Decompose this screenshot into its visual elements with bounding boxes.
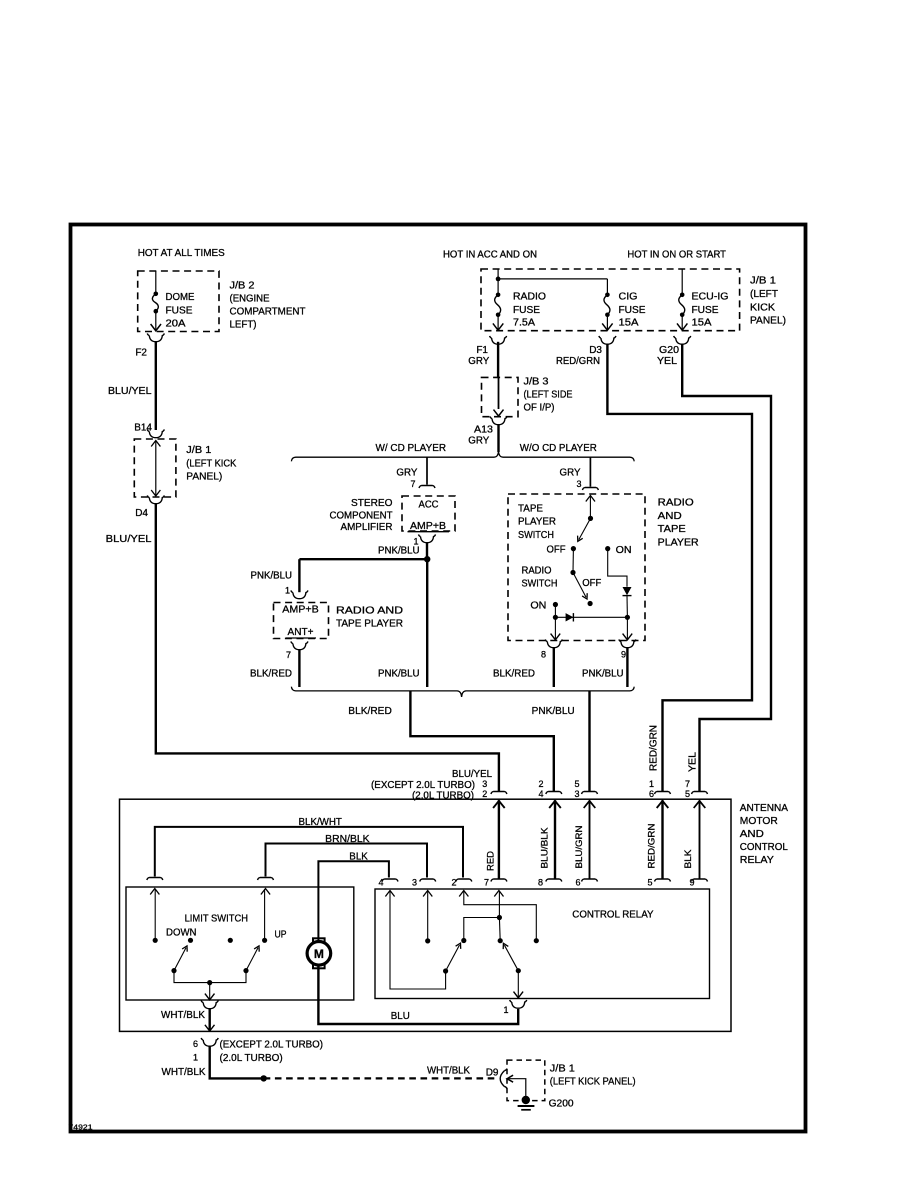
wire PNK/BLU node to radio xyxy=(299,558,427,560)
svg-text:FUSE: FUSE xyxy=(692,305,719,316)
label pin 1 and turbo xyxy=(193,1053,283,1065)
svg-text:J/B 1: J/B 1 xyxy=(550,1064,575,1075)
switch blade relay right xyxy=(503,943,521,973)
svg-text:BLK/RED: BLK/RED xyxy=(493,669,535,680)
svg-text:BLU/YEL: BLU/YEL xyxy=(108,386,152,397)
connector F2 xyxy=(147,333,164,341)
terminal RED/GRN in xyxy=(655,792,671,795)
svg-text:J/B 1: J/B 1 xyxy=(186,445,211,456)
label F1 GRY xyxy=(468,345,489,367)
wire BLU/GRN internal xyxy=(584,800,596,878)
terminal PNK/BLU in xyxy=(582,792,598,795)
label BLU/YEL turbo xyxy=(452,769,492,780)
label ON left xyxy=(530,600,546,611)
svg-text:PANEL): PANEL) xyxy=(750,316,786,327)
svg-text:RED/GRN: RED/GRN xyxy=(649,725,660,771)
svg-text:D4: D4 xyxy=(135,508,148,519)
wire WHT/BLK dashed ground run xyxy=(264,1077,495,1079)
terminal pin 3 tape player xyxy=(582,488,598,491)
svg-text:8: 8 xyxy=(538,878,543,888)
terminal BLK/RED in xyxy=(546,792,562,795)
svg-text:YEL: YEL xyxy=(688,752,699,772)
label GRY 3 xyxy=(560,468,582,490)
node relay contact 3 xyxy=(425,938,430,943)
connector F1 xyxy=(490,336,507,344)
svg-text:GRY: GRY xyxy=(468,356,489,367)
switch blade limit DOWN xyxy=(171,946,187,973)
label pins 3/2 BLU/YEL xyxy=(482,779,487,799)
node relay contact 2 xyxy=(534,938,539,943)
wire diode link xyxy=(555,616,627,618)
label RADIO AND TAPE PLAYER right xyxy=(658,498,699,549)
wire relay 7 to left contact xyxy=(464,918,500,941)
svg-text:(EXCEPT 2.0L TURBO): (EXCEPT 2.0L TURBO) xyxy=(220,1040,324,1051)
svg-text:WHT/BLK: WHT/BLK xyxy=(427,1066,470,1077)
connector tape pin 9 xyxy=(619,639,636,647)
svg-text:D3: D3 xyxy=(589,345,602,356)
fuse DOME FUSE 20A xyxy=(151,292,161,331)
svg-text:HOT IN ON OR START: HOT IN ON OR START xyxy=(627,250,726,261)
svg-text:CIG: CIG xyxy=(619,292,638,303)
wire GRY A13 to brace xyxy=(497,425,499,452)
svg-text:FUSE: FUSE xyxy=(166,305,193,316)
svg-text:A13: A13 xyxy=(474,425,493,436)
fuse RADIO FUSE 7.5A xyxy=(493,293,503,331)
svg-text:W/O CD PLAYER: W/O CD PLAYER xyxy=(520,443,597,454)
label AMP+B radio xyxy=(282,605,319,616)
wire limit feed left xyxy=(150,889,159,941)
node limit DOWN contact xyxy=(188,938,193,943)
label A13 GRY xyxy=(468,425,493,447)
label J/B 1 (LEFT KICK PANEL) right xyxy=(750,276,786,327)
wire RED/GRN D3 run xyxy=(607,345,752,792)
label BLK vertical xyxy=(683,849,694,869)
label DOWN xyxy=(166,928,197,939)
label CONTROL RELAY xyxy=(572,910,654,921)
junction block J/B 3 box xyxy=(482,377,519,416)
label RED vertical xyxy=(485,851,496,871)
wire tape exit 9 xyxy=(623,617,633,640)
wire relay pin 7 internal xyxy=(494,891,503,918)
svg-text:UP: UP xyxy=(275,930,287,941)
label pin 1 radio xyxy=(285,586,290,596)
connector radio pin 7 xyxy=(291,641,308,649)
wire PNK/BLU amp to node xyxy=(426,543,428,559)
svg-text:BLK: BLK xyxy=(683,849,694,869)
label BRN/BLK xyxy=(325,834,370,845)
label RED/GRN vertical xyxy=(649,725,660,771)
svg-text:RADIO: RADIO xyxy=(522,566,552,577)
svg-text:SWITCH: SWITCH xyxy=(522,579,558,590)
label BLK/RED out xyxy=(348,706,392,717)
terminal relay pin 7 xyxy=(491,879,507,882)
label DOME FUSE 20A xyxy=(166,292,195,329)
svg-text:3: 3 xyxy=(482,779,487,789)
svg-text:(EXCEPT 2.0L TURBO): (EXCEPT 2.0L TURBO) xyxy=(371,780,475,791)
label W/ CD PLAYER xyxy=(376,443,447,454)
wire RED internal xyxy=(493,800,505,878)
wire feed bus xyxy=(498,269,607,279)
wire PNK/BLU to radio pin 1 xyxy=(298,559,300,592)
diode D2 xyxy=(623,587,632,596)
label CIG FUSE 15A xyxy=(619,292,646,329)
label relay pin 8 xyxy=(538,878,543,888)
svg-text:BLK: BLK xyxy=(349,852,368,863)
label LEFT KICK PANEL ground xyxy=(550,1077,636,1088)
svg-text:DOWN: DOWN xyxy=(166,928,197,939)
connector D9 xyxy=(500,1069,507,1089)
svg-text:COMPARTMENT: COMPARTMENT xyxy=(230,307,306,318)
switch blade limit UP xyxy=(243,946,259,973)
wire BLK motor link xyxy=(318,861,389,941)
label pins 2/4 BLK/RED xyxy=(538,779,543,799)
svg-text:BLK/WHT: BLK/WHT xyxy=(299,817,342,828)
wire ecu-ig fuse stub xyxy=(681,269,683,295)
label pins 5/3 PNK/BLU xyxy=(574,779,579,799)
wire YEL G20 run xyxy=(682,345,771,792)
svg-text:TAPE PLAYER: TAPE PLAYER xyxy=(336,619,403,630)
label UP xyxy=(275,930,287,941)
svg-text:DOME: DOME xyxy=(166,292,195,303)
wire radio fuse stub xyxy=(497,279,499,295)
label PNK/BLU mid xyxy=(378,669,420,680)
node diode out junction xyxy=(625,615,630,620)
label HOT AT ALL TIMES xyxy=(138,248,225,259)
wire GRY branch right xyxy=(589,457,591,487)
node bus junction xyxy=(496,277,501,282)
label relay pin 6 xyxy=(575,878,580,888)
label relay pin 1 xyxy=(503,1005,508,1015)
terminal relay pin 6 xyxy=(582,879,598,882)
wire tape exit 8 xyxy=(551,617,561,640)
label OFF radio xyxy=(582,578,601,589)
label WHT/BLK limit xyxy=(161,1010,205,1021)
terminal limit pin right xyxy=(258,878,274,881)
svg-text:(LEFT KICK: (LEFT KICK xyxy=(186,458,236,469)
wire relay pin 2 internal xyxy=(459,891,536,941)
label J/B 1 ground xyxy=(550,1064,575,1075)
label HOT IN ON OR START xyxy=(627,250,726,261)
svg-text:WHT/BLK: WHT/BLK xyxy=(161,1010,205,1021)
connector G20 xyxy=(674,336,691,344)
svg-text:ON: ON xyxy=(530,600,546,611)
terminal relay pin 9 xyxy=(692,879,708,882)
svg-text:PNK/BLU: PNK/BLU xyxy=(532,706,575,717)
svg-text:9: 9 xyxy=(621,650,626,660)
label BLU/YEL 2 xyxy=(106,534,152,545)
svg-text:7: 7 xyxy=(410,479,415,489)
wire BLU/BLK internal xyxy=(549,800,561,878)
node radio switch pivot xyxy=(570,570,575,575)
wire BLK/WHT link xyxy=(155,827,463,878)
label D9 xyxy=(486,1068,499,1079)
label RADIO AND TAPE PLAYER xyxy=(336,606,403,630)
label 2.0L TURBO xyxy=(412,791,474,802)
svg-text:G200: G200 xyxy=(549,1098,574,1109)
wire relay pin 4 internal xyxy=(385,891,445,990)
node radio OFF contact xyxy=(588,601,593,606)
switch blade relay left xyxy=(443,943,461,974)
svg-text:AMPLIFIER: AMPLIFIER xyxy=(341,522,393,533)
label relay pin 4 xyxy=(378,878,383,888)
component RADIO AND TAPE PLAYER switch box xyxy=(508,494,645,641)
svg-text:3: 3 xyxy=(412,878,417,888)
label PNK/BLU radio xyxy=(251,571,293,582)
svg-text:BLK/RED: BLK/RED xyxy=(250,669,292,680)
svg-text:1: 1 xyxy=(285,586,290,596)
svg-text:OFF: OFF xyxy=(547,545,566,556)
label AMP+B underlined xyxy=(408,521,450,532)
svg-text:(LEFT: (LEFT xyxy=(750,289,778,300)
node relay contact 7b xyxy=(498,938,503,943)
label RADIO SWITCH xyxy=(522,566,558,590)
wire BLU/YEL F2 to B14 xyxy=(155,342,157,430)
label EXCEPT 2.0L TURBO xyxy=(371,780,475,791)
wire BLK/RED radio down xyxy=(298,650,300,687)
label G200 xyxy=(549,1098,574,1109)
connector D4 xyxy=(147,495,164,503)
svg-text:6: 6 xyxy=(193,1039,198,1049)
svg-text:PLAYER: PLAYER xyxy=(658,537,699,548)
svg-text:ACC: ACC xyxy=(419,500,439,511)
node ground splice xyxy=(261,1075,267,1081)
svg-text:COMPONENT: COMPONENT xyxy=(330,511,393,522)
junction block J/B 1 box xyxy=(481,269,740,331)
drawing number 74921 xyxy=(69,1123,93,1132)
label RED/GRN vertical 2 xyxy=(647,823,658,868)
wire GRY F1 to J/B3 xyxy=(497,342,499,378)
svg-text:3: 3 xyxy=(574,789,579,799)
svg-text:AND: AND xyxy=(658,511,682,522)
wire diode D2 down xyxy=(626,596,628,618)
svg-text:GRY: GRY xyxy=(396,468,417,479)
label LIMIT SWITCH xyxy=(185,914,248,925)
label BLU/GRN vertical xyxy=(574,825,585,868)
wire fuse feed stub xyxy=(155,271,157,294)
label pins 7/5 YEL xyxy=(685,779,690,799)
label J/B 2 (ENGINE COMPARTMENT LEFT) xyxy=(230,281,306,331)
label relay pin 5 xyxy=(647,878,652,888)
svg-text:5: 5 xyxy=(647,878,652,888)
terminal relay pin 8 xyxy=(546,879,562,882)
wire BLU/YEL main run xyxy=(156,504,499,791)
svg-text:LIMIT SWITCH: LIMIT SWITCH xyxy=(185,914,248,925)
svg-text:BLU/YEL: BLU/YEL xyxy=(106,534,152,545)
svg-text:J/B 2: J/B 2 xyxy=(230,281,255,292)
label PNK/BLU out xyxy=(532,706,575,717)
svg-text:GRY: GRY xyxy=(560,468,581,479)
svg-text:7: 7 xyxy=(484,878,489,888)
wire BLK/RED tape down xyxy=(553,648,555,687)
svg-text:7: 7 xyxy=(685,779,690,789)
svg-text:BLU: BLU xyxy=(391,1011,410,1022)
svg-text:OF I/P): OF I/P) xyxy=(524,403,555,414)
label BLU xyxy=(391,1011,410,1022)
svg-text:7.5A: 7.5A xyxy=(513,318,535,329)
terminal BLU/YEL in xyxy=(491,792,507,795)
svg-text:3: 3 xyxy=(576,479,581,489)
node PNK/BLU junction xyxy=(424,556,430,562)
svg-text:SWITCH: SWITCH xyxy=(518,530,554,541)
label HOT IN ACC AND ON xyxy=(443,250,537,261)
label WHT/BLK 2 xyxy=(162,1067,206,1078)
svg-text:WHT/BLK: WHT/BLK xyxy=(162,1067,206,1078)
svg-text:F1: F1 xyxy=(476,345,488,356)
connector amplifier pin 1 xyxy=(419,534,436,542)
label W/O CD PLAYER xyxy=(520,443,597,454)
svg-text:TAPE: TAPE xyxy=(658,524,686,535)
label PNK/BLU xyxy=(378,546,420,557)
svg-text:PNK/BLU: PNK/BLU xyxy=(378,669,420,680)
label B14 xyxy=(134,423,152,434)
node tape OFF contact xyxy=(571,546,576,551)
label relay pin 9 xyxy=(689,878,694,888)
connector 6/1 turbo xyxy=(201,1038,218,1046)
svg-text:ANTENNA: ANTENNA xyxy=(740,803,789,814)
wire limit common xyxy=(174,971,246,983)
label BLK/WHT xyxy=(299,817,342,828)
label BLK/RED xyxy=(250,669,292,680)
svg-text:5: 5 xyxy=(574,779,579,789)
wire relay out xyxy=(514,971,524,998)
wire relay pin 3 internal xyxy=(423,891,432,941)
wire WHT/BLK to ground run xyxy=(210,1046,264,1078)
svg-text:STEREO: STEREO xyxy=(351,498,393,509)
svg-text:RELAY: RELAY xyxy=(740,855,774,866)
svg-text:GRY: GRY xyxy=(468,436,489,447)
svg-text:MOTOR: MOTOR xyxy=(740,816,778,827)
svg-text:1: 1 xyxy=(503,1005,508,1015)
wire BLK internal xyxy=(694,800,706,878)
svg-text:AMP+B: AMP+B xyxy=(410,521,446,532)
connector relay pin 1 xyxy=(510,1000,527,1008)
label pin 9 xyxy=(621,650,626,660)
svg-text:RADIO: RADIO xyxy=(658,498,694,509)
svg-text:BLU/BLK: BLU/BLK xyxy=(540,827,551,869)
component ANTENNA MOTOR AND CONTROL RELAY box xyxy=(120,799,732,1031)
svg-text:2: 2 xyxy=(451,878,456,888)
wire PNK/BLU tape down xyxy=(626,648,628,687)
label ANT+ underlined xyxy=(286,627,317,638)
wire tape switch feed xyxy=(586,496,595,519)
label PNK/BLU tape xyxy=(582,669,624,680)
label pin 1 amplifier xyxy=(413,537,418,547)
wire through J/B 1 xyxy=(151,441,160,497)
svg-text:1: 1 xyxy=(193,1053,198,1063)
node limit UP contact xyxy=(262,938,267,943)
svg-text:15A: 15A xyxy=(692,318,712,329)
svg-text:G20: G20 xyxy=(659,345,679,356)
terminal relay pin 3 xyxy=(420,879,436,882)
label F2 xyxy=(135,348,147,359)
svg-text:ECU-IG: ECU-IG xyxy=(692,292,729,303)
connector radio pin 1 xyxy=(291,590,308,598)
svg-text:HOT AT ALL TIMES: HOT AT ALL TIMES xyxy=(138,248,225,259)
label OFF tape xyxy=(547,545,566,556)
terminal YEL in xyxy=(692,792,708,795)
svg-text:AND: AND xyxy=(740,829,764,840)
svg-text:M: M xyxy=(314,947,324,961)
label J/B 3 (LEFT SIDE OF I/P) xyxy=(524,377,573,414)
wire through J/B 3 xyxy=(494,377,504,416)
label BLU/BLK vertical xyxy=(540,827,551,869)
wire relay 7 down xyxy=(498,918,501,941)
svg-text:RED/GRN: RED/GRN xyxy=(647,823,658,868)
wire cig fuse stub xyxy=(606,279,608,295)
wire RED/GRN internal xyxy=(657,800,669,878)
fuse ECU-IG FUSE 15A xyxy=(677,293,687,331)
svg-text:FUSE: FUSE xyxy=(619,305,646,316)
node tape switch pivot xyxy=(588,516,593,521)
label pins 1/6 RED/GRN xyxy=(649,779,654,799)
component LIMIT SWITCH box xyxy=(126,887,354,1000)
svg-text:15A: 15A xyxy=(619,318,639,329)
svg-text:74921: 74921 xyxy=(69,1123,93,1132)
connector tape pin 8 xyxy=(545,639,562,647)
svg-text:LEFT): LEFT) xyxy=(230,320,257,331)
label GRY 7 xyxy=(396,468,417,490)
svg-text:FUSE: FUSE xyxy=(513,305,540,316)
label relay pin 7 xyxy=(484,878,489,888)
svg-text:YEL: YEL xyxy=(657,356,677,367)
junction block J/B 1 left kick box xyxy=(134,439,176,497)
terminal relay pin 4 xyxy=(382,879,398,882)
svg-text:KICK: KICK xyxy=(750,303,775,314)
svg-text:(ENGINE: (ENGINE xyxy=(230,293,270,304)
wire GRY branch left xyxy=(426,457,428,485)
svg-text:(2.0L TURBO): (2.0L TURBO) xyxy=(220,1053,283,1064)
svg-text:RADIO: RADIO xyxy=(513,292,546,303)
svg-text:PLAYER: PLAYER xyxy=(518,517,556,528)
svg-text:OFF: OFF xyxy=(582,578,601,589)
svg-text:CONTROL: CONTROL xyxy=(740,842,788,853)
svg-text:PNK/BLU: PNK/BLU xyxy=(582,669,624,680)
junction block J/B 2 box xyxy=(138,271,219,332)
label BLK xyxy=(349,852,368,863)
wire PNK/BLU node down xyxy=(426,559,428,687)
svg-text:4: 4 xyxy=(378,878,383,888)
wire BRN/BLK link xyxy=(266,844,428,878)
connector B14 xyxy=(147,429,164,437)
wire BLK/RED merged xyxy=(410,691,553,791)
svg-text:1: 1 xyxy=(649,779,654,789)
label G20 YEL xyxy=(657,345,679,367)
svg-text:ANT+: ANT+ xyxy=(288,627,314,638)
label pin 6 and EXCEPT turbo xyxy=(193,1039,323,1051)
svg-text:W/ CD PLAYER: W/ CD PLAYER xyxy=(376,443,447,454)
wire OFF to radio switch xyxy=(572,549,574,573)
junction block J/B 1 ground box xyxy=(507,1060,545,1101)
label pin 7 radio xyxy=(286,650,291,660)
node ON left contact xyxy=(553,602,558,607)
motor M xyxy=(307,938,331,968)
label relay pin 2 xyxy=(451,878,456,888)
label BLU/YEL xyxy=(108,386,152,397)
svg-text:RED: RED xyxy=(485,851,496,871)
component CONTROL RELAY box xyxy=(375,889,710,999)
svg-text:RED/GRN: RED/GRN xyxy=(556,356,600,367)
node limit common junction xyxy=(207,980,212,985)
component STEREO COMPONENT AMPLIFIER box xyxy=(402,496,455,531)
label J/B 1 (LEFT KICK PANEL) xyxy=(186,445,236,483)
wire limit feed right xyxy=(261,889,270,941)
label ANTENNA MOTOR AND CONTROL RELAY xyxy=(740,803,789,866)
svg-text:ON: ON xyxy=(616,545,632,556)
label D3 RED/GRN xyxy=(556,345,602,367)
node relay junction 7 xyxy=(497,915,502,920)
node ON right contact xyxy=(605,546,610,551)
svg-text:20A: 20A xyxy=(166,318,186,329)
